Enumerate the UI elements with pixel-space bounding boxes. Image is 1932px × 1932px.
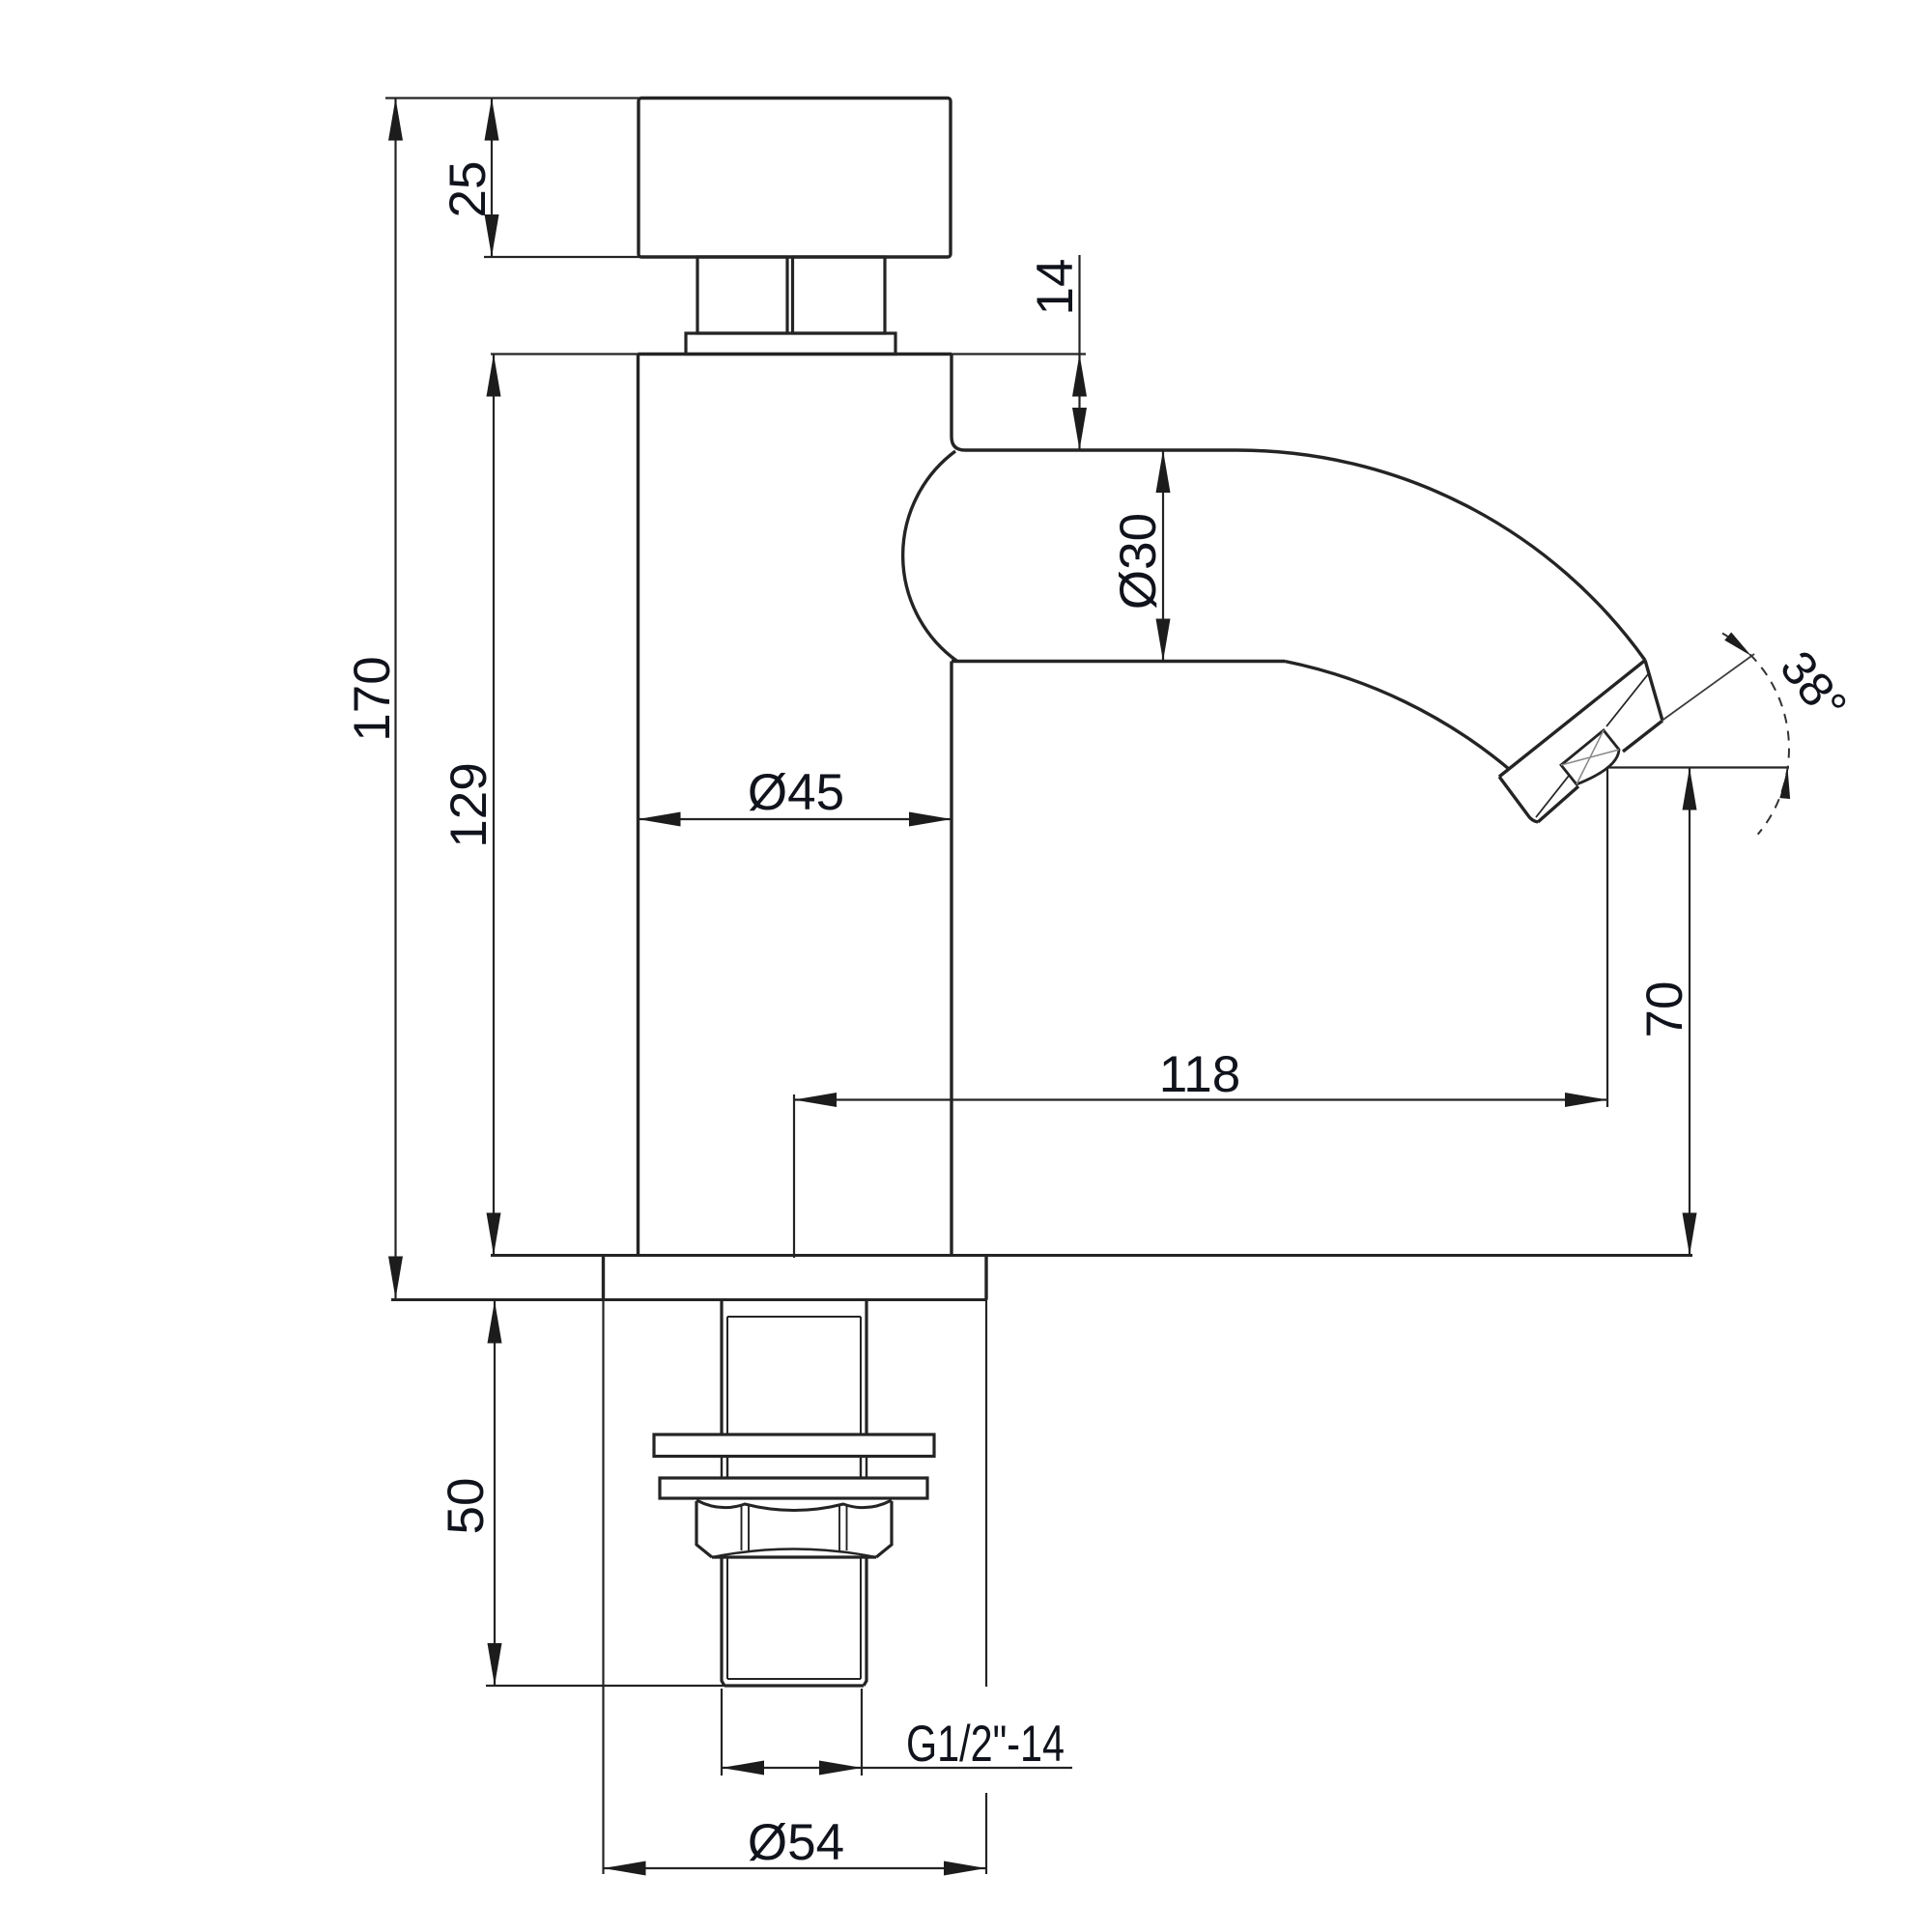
dim 70 line	[1689, 768, 1690, 1256]
knob stem left block	[697, 257, 787, 333]
arrow O30 bottom	[1156, 619, 1171, 662]
body top line right extension to 14 dim	[950, 353, 1086, 355]
arrow 129 top	[487, 355, 501, 397]
arrow angle arc lower	[1779, 768, 1793, 800]
dim O30 line	[1162, 450, 1164, 662]
spout tip cap right edge	[1645, 661, 1662, 722]
shank upper outer right	[865, 1300, 867, 1435]
arrow O30 top	[1156, 450, 1171, 493]
shank upper outer left	[720, 1300, 723, 1435]
threaded pipe inner thread lines	[727, 1557, 861, 1679]
spout outer arc	[1236, 450, 1645, 661]
angle 38 thin reference line	[1661, 654, 1754, 722]
dim 50 line	[494, 1301, 496, 1687]
dim 129/14 extension: body top line left extension	[491, 353, 639, 355]
push button knob (top cap)	[639, 99, 951, 258]
counter lower line (plate bottom)	[391, 1298, 986, 1301]
upper washer	[654, 1435, 934, 1457]
spout end face line	[1499, 661, 1645, 778]
shank upper inner thread lines	[727, 1317, 861, 1435]
hex nut right side	[876, 1501, 892, 1557]
dim G1/2 line and leader	[722, 1767, 1072, 1769]
dim G1/2 right extension	[861, 1689, 863, 1776]
arrow O45 left	[639, 812, 681, 827]
arrow 70 top	[1683, 768, 1697, 810]
threaded pipe bottom edge	[724, 1684, 864, 1687]
body top line (object part)	[639, 353, 952, 355]
body right edge upper with rounded corner into spout top	[952, 355, 965, 451]
threaded pipe outer left	[722, 1557, 724, 1686]
hex nut facet lines right	[839, 1505, 847, 1550]
arrow 25 top	[485, 99, 499, 141]
spout inner arc	[1285, 662, 1509, 770]
arrow O45 right	[909, 812, 952, 827]
dim 50 bottom extension line	[486, 1685, 724, 1687]
stem flange	[686, 333, 895, 355]
dim 170 line	[394, 99, 396, 1299]
arrow G1/2 left	[722, 1761, 764, 1776]
dim 170 extension line top	[385, 97, 639, 99]
aerator X diagonal 2	[1561, 750, 1619, 765]
svg-text:118: 118	[1159, 1046, 1241, 1103]
arrow O54 left	[604, 1861, 646, 1876]
dim O45 line	[639, 818, 952, 820]
dim G1/2 left extension	[721, 1689, 723, 1776]
aerator X diagonal 1	[1577, 730, 1604, 784]
body left edge	[637, 355, 639, 1256]
dim O54 left extension	[602, 1300, 604, 1875]
spout tip cap bottom-left corner	[1499, 777, 1538, 822]
spout tip cap outer edge left segment	[1538, 786, 1578, 822]
dim O54 line	[604, 1867, 987, 1869]
arrow 170 bottom	[388, 1257, 403, 1299]
svg-text:Ø45: Ø45	[748, 764, 844, 821]
body right edge lower	[950, 662, 952, 1256]
svg-text:129: 129	[440, 762, 497, 847]
arrow 25 bottom	[485, 214, 499, 257]
dim 118 line	[794, 1098, 1607, 1100]
spout tip far-edge thin line lower segment	[1536, 776, 1569, 817]
spout junction bulge arc	[903, 451, 957, 662]
spout tip far-edge thin line upper segment	[1606, 674, 1648, 726]
hex nut facet lines left	[742, 1505, 750, 1550]
svg-text:14: 14	[1027, 259, 1084, 316]
dim O54 right extension upper part	[985, 1300, 987, 1688]
angle 38 dashed arc	[1722, 634, 1789, 835]
svg-text:170: 170	[344, 656, 401, 741]
arrow 170 top	[388, 99, 403, 141]
svg-text:Ø30: Ø30	[1110, 513, 1167, 610]
spout tip cap outer edge right segment	[1623, 721, 1662, 752]
arrow O54 right	[944, 1861, 986, 1876]
dim 129 line	[493, 355, 495, 1256]
arrow G1/2 right	[819, 1761, 862, 1776]
svg-text:25: 25	[440, 161, 497, 218]
svg-text:G1/2"-14: G1/2"-14	[906, 1716, 1065, 1773]
arrow 70 bottom	[1683, 1213, 1697, 1256]
dim 25 line	[491, 99, 493, 258]
dim 14 line	[1078, 255, 1080, 450]
arrow 50 bottom	[488, 1643, 502, 1686]
arrow angle arc upper	[1724, 632, 1754, 660]
aerator box outline	[1561, 730, 1619, 784]
svg-text:50: 50	[438, 1478, 495, 1535]
dim 25 extension line bottom	[484, 256, 639, 258]
hex nut left side	[696, 1501, 712, 1557]
spout tip reference horizontal line	[1608, 766, 1790, 768]
arrow 14 top	[1072, 355, 1087, 397]
knob stem right block	[793, 257, 886, 333]
base plate right edge	[984, 1256, 987, 1300]
base plate left edge	[602, 1256, 605, 1300]
hex nut bottom chamfer arc	[712, 1549, 876, 1558]
dim 118 left extension (center axis)	[793, 1094, 795, 1258]
hex nut top chamfer arcs	[696, 1500, 892, 1511]
dim 118 right extension	[1606, 767, 1608, 1107]
arrow 14 bottom	[1072, 408, 1087, 450]
arrow 118 right	[1565, 1093, 1607, 1107]
dim O54 right extension lower part	[985, 1793, 987, 1874]
arrow 129 bottom	[487, 1213, 501, 1256]
lower washer	[660, 1478, 927, 1498]
arrow 50 top	[488, 1301, 502, 1344]
arrow 118 left	[794, 1093, 837, 1107]
spout bottom straight line	[952, 660, 1285, 663]
hex nut bottom edge	[712, 1555, 876, 1558]
svg-text:Ø54: Ø54	[748, 1814, 844, 1871]
svg-text:70: 70	[1636, 981, 1693, 1038]
spout top straight line	[965, 448, 1236, 451]
threaded pipe outer right	[864, 1557, 867, 1686]
base line (body bottom / counter top)	[491, 1254, 1692, 1257]
shank between washers	[722, 1457, 867, 1479]
